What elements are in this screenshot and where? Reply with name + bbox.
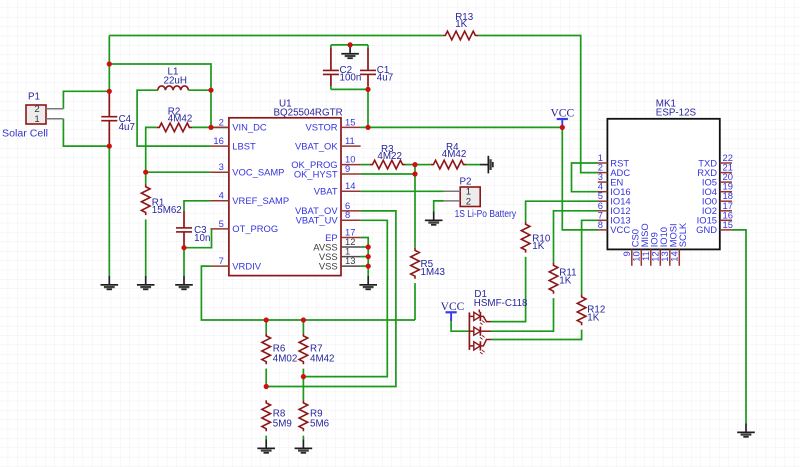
R2 value 4M42 — [168, 114, 193, 125]
P1 designator — [28, 92, 40, 103]
wire VSS13 stub — [361, 265, 369, 267]
svg-text:VBAT_UV: VBAT_UV — [296, 215, 339, 226]
power VCC (at D1) — [441, 301, 465, 321]
wire VSTOR to VCC — [361, 126, 563, 128]
svg-text:8: 8 — [598, 219, 603, 230]
wire R1 bottom to ground — [145, 219, 147, 276]
R12 label — [587, 305, 605, 316]
R13 value 1K — [455, 19, 467, 30]
svg-text:P2: P2 — [460, 176, 472, 187]
diode D1 HSMF-C118 — [469, 310, 491, 355]
R8 value 5M9 — [273, 419, 292, 430]
junction C1 bottom rail — [365, 87, 370, 92]
wire R9 links — [302, 436, 304, 440]
wire VCC2 to D1 common — [451, 319, 469, 331]
wire VSS1 stub — [361, 256, 369, 258]
resistor R8 — [262, 400, 271, 431]
R7 label — [310, 343, 323, 354]
MK1 pin 9 CS0 — [621, 229, 640, 266]
wire L1 left to LBST — [137, 90, 210, 146]
wire R10 bottom to LED1 — [491, 257, 526, 322]
junction VSTOR / C1 — [365, 125, 370, 130]
svg-text:4M42: 4M42 — [310, 353, 335, 364]
MK1 pin 13 MOSI — [659, 223, 678, 265]
wire R5 bottom — [414, 283, 416, 320]
R3 label — [381, 144, 394, 155]
wire IO12 to R11 — [554, 211, 599, 263]
svg-text:22uH: 22uH — [164, 76, 187, 87]
svg-text:BQ25504RGTR: BQ25504RGTR — [274, 108, 343, 119]
svg-text:1K: 1K — [455, 19, 467, 30]
D1 part number HSMF-C118 — [474, 298, 528, 309]
MK1 part name ESP-12S — [656, 108, 697, 119]
MK1 pin 3 EN — [598, 171, 624, 187]
svg-text:5M9: 5M9 — [273, 419, 292, 430]
svg-text:1S Li-Po Battery: 1S Li-Po Battery — [455, 209, 517, 220]
svg-text:SCLK: SCLK — [677, 222, 688, 247]
junction VSTOR / VCC — [560, 125, 565, 130]
wire R8 to ground — [265, 436, 267, 440]
MK1 pin 22 TXD — [698, 152, 733, 168]
U1 pin 17 EP — [325, 226, 361, 242]
wire VOC_SAMP — [146, 171, 211, 173]
ground below R1 — [137, 276, 155, 290]
U1 pin 2 VIN_DC — [211, 116, 267, 132]
wire C1 bottom to VSTOR — [367, 91, 369, 127]
resistor R10 — [521, 222, 530, 253]
svg-text:VREF_SAMP: VREF_SAMP — [232, 195, 289, 206]
junction L1 right — [208, 88, 213, 93]
wire R5 top to OK_HYST — [414, 165, 416, 248]
junction AVSS — [366, 244, 371, 249]
svg-text:16: 16 — [213, 135, 223, 146]
svg-text:4M02: 4M02 — [273, 353, 298, 364]
U1 pin 1 VSS — [319, 246, 361, 262]
svg-text:100n: 100n — [340, 73, 362, 84]
wire R11 bottom to LED2 — [491, 298, 554, 331]
svg-text:VBAT: VBAT — [314, 186, 338, 197]
junction VSS pin1 — [366, 254, 371, 259]
svg-text:VRDIV: VRDIV — [232, 260, 261, 271]
svg-text:1: 1 — [34, 114, 39, 125]
wire EP to VSS ground vertical — [361, 238, 369, 277]
R11 value 1K — [559, 276, 571, 287]
resistor R11 — [549, 263, 558, 294]
wire VCC to ESP VCC pin8 — [562, 127, 598, 229]
MK1 pin 17 IO2 — [702, 200, 733, 216]
svg-text:13: 13 — [345, 255, 355, 266]
U1 pin 15 VSTOR — [305, 116, 360, 132]
svg-text:2: 2 — [466, 196, 471, 207]
R10 value 1K — [532, 241, 544, 252]
capacitor C3 — [176, 211, 192, 248]
junction R3 / R4 / R5 — [412, 162, 417, 167]
wire C3 bottom junction to ground — [183, 248, 185, 276]
wire OK_HYST — [361, 173, 415, 175]
MK1 pin 2 ADC — [598, 162, 631, 178]
wire C2 top lead — [330, 45, 332, 48]
U1 pin 4 VREF_SAMP — [211, 190, 290, 206]
wire OK_PROG to R3 — [361, 164, 370, 166]
svg-text:1K: 1K — [532, 241, 544, 252]
C2 label — [340, 65, 353, 76]
wire R7 mid links — [302, 320, 304, 400]
U1 pin 6 VBAT_OV — [295, 200, 361, 216]
svg-text:OT_PROG: OT_PROG — [232, 223, 278, 234]
R5 label — [421, 259, 434, 270]
svg-text:11: 11 — [345, 135, 355, 146]
R12 value 1K — [587, 313, 599, 324]
wire VBAT_OV to R6 bottom — [266, 211, 396, 387]
op-amp U1 body (BQ25504RGTR) — [229, 118, 341, 276]
svg-text:P1: P1 — [28, 92, 40, 103]
MK1 pin 6 IO12 — [598, 200, 631, 216]
wire VBAT to P2 pin1 — [361, 190, 444, 192]
junction P1 pin1 / C4 bottom — [107, 144, 112, 149]
svg-text:2: 2 — [219, 116, 224, 127]
svg-text:VCC: VCC — [610, 224, 630, 235]
svg-text:VCC: VCC — [441, 301, 465, 313]
svg-text:5: 5 — [219, 218, 224, 229]
wire P1 pin2 loop — [63, 91, 109, 109]
MK1 pin 1 RST — [598, 152, 630, 168]
MK1 pin 14 SCLK — [669, 222, 688, 266]
MK1 pin 20 IO5 — [702, 171, 733, 187]
wire R3 right to node — [405, 164, 415, 166]
R13 label — [455, 12, 474, 23]
ground below P2 — [425, 212, 443, 226]
svg-text:VCC: VCC — [550, 107, 574, 119]
svg-text:5M6: 5M6 — [310, 419, 330, 430]
junction solar rail / y64 — [107, 61, 112, 66]
R7 value 4M42 — [310, 353, 335, 364]
svg-text:ESP-12S: ESP-12S — [656, 108, 697, 119]
MK1 pin 5 IO14 — [598, 190, 631, 206]
wire RST to IO16 — [572, 163, 599, 192]
resistor R9 — [299, 400, 308, 431]
wire P2 pin2 to ground — [434, 201, 444, 212]
svg-text:7: 7 — [219, 255, 224, 266]
svg-text:1M43: 1M43 — [421, 267, 446, 278]
R8 label — [273, 409, 286, 420]
svg-text:4: 4 — [219, 190, 224, 201]
svg-text:1K: 1K — [587, 313, 599, 324]
inductor L1 — [158, 86, 189, 90]
svg-text:8: 8 — [345, 209, 350, 220]
wire IO13 to R12 — [582, 220, 598, 294]
resistor R5 — [411, 248, 420, 279]
junction C3 bottom / OT_PROG — [181, 245, 186, 250]
R3 value 4M22 — [377, 151, 402, 162]
C1 value 4u7 — [377, 73, 393, 84]
resistor R6 — [262, 333, 271, 364]
junction VRDIV / R7 — [301, 317, 306, 322]
svg-text:4M42: 4M42 — [168, 114, 193, 125]
ground at C2/C1 top — [341, 45, 359, 59]
R2 label — [168, 107, 181, 118]
svg-text:VSS: VSS — [319, 260, 338, 271]
svg-text:1K: 1K — [559, 276, 571, 287]
svg-text:GND: GND — [696, 224, 717, 235]
wire R13 right to ADC net vertical — [478, 36, 598, 173]
svg-text:OK_HYST: OK_HYST — [294, 168, 338, 179]
R4 label — [446, 142, 459, 153]
connector P1 (Solar Cell) — [26, 104, 63, 125]
C4 label — [119, 114, 132, 125]
wire P1 pin1 loop — [63, 119, 109, 146]
R10 label — [532, 233, 551, 244]
resistor R3 — [370, 160, 405, 169]
wire node to R4 — [415, 164, 431, 166]
wire C1 bottom lead — [367, 86, 369, 91]
svg-text:Solar Cell: Solar Cell — [2, 129, 48, 140]
power VCC (main) — [550, 107, 574, 127]
ground below R8 — [257, 440, 275, 454]
wire R12 bottom to LED3 — [491, 330, 582, 340]
svg-text:3: 3 — [219, 161, 224, 172]
R6 label — [273, 343, 286, 354]
ground below C3 — [175, 276, 193, 290]
svg-text:VBAT_OK: VBAT_OK — [295, 140, 338, 151]
wire IO14 to R10 — [526, 201, 598, 221]
wire R4 right to ground — [466, 164, 480, 166]
junction VRDIV / R6 — [264, 317, 269, 322]
svg-text:VOC_SAMP: VOC_SAMP — [232, 167, 284, 178]
U1 pin 13 VSS — [319, 255, 361, 271]
MK1 pin 12 IO10 — [650, 227, 669, 266]
C3 value 10n — [194, 233, 210, 244]
svg-text:4u7: 4u7 — [119, 122, 135, 133]
wire VREF_SAMP to C3 — [184, 201, 211, 211]
P2 label 1S Li-Po Battery — [455, 209, 517, 220]
wire L1 right lead — [188, 89, 211, 91]
ground below VSS pins — [359, 276, 377, 290]
svg-text:VIN_DC: VIN_DC — [232, 122, 267, 133]
wire R2 left to VOC_SAMP node — [146, 127, 157, 172]
MK1 pin 21 RXD — [697, 162, 733, 178]
MK1 pin 10 MISO — [631, 223, 650, 265]
U1 pin 8 VBAT_UV — [296, 209, 361, 225]
R11 label — [559, 268, 576, 279]
svg-text:15M62: 15M62 — [152, 205, 182, 216]
wire VRDIV rail — [201, 266, 415, 320]
junction P1 pin2 / C4 top — [107, 89, 112, 94]
P2 designator — [460, 176, 472, 187]
ground right of R4 — [480, 156, 494, 174]
svg-text:4M42: 4M42 — [442, 149, 467, 160]
svg-text:9: 9 — [345, 163, 350, 174]
wire left vertical solar node (x=109) — [108, 36, 110, 93]
svg-text:LBST: LBST — [232, 140, 256, 151]
U1 designator — [279, 98, 292, 109]
svg-text:VSTOR: VSTOR — [305, 122, 337, 133]
R5 value 1M43 — [421, 267, 446, 278]
MK1 pin 15 GND — [696, 219, 733, 235]
R1 label — [152, 198, 165, 209]
U1 pin 7 VRDIV — [211, 255, 262, 271]
U1 pin 10 OK_PROG — [291, 154, 360, 170]
R9 value 5M6 — [310, 419, 330, 430]
R9 label — [310, 409, 323, 420]
wire node row y64 to VIN vertical — [109, 64, 211, 90]
ground below C4 — [101, 276, 119, 290]
R4 value 4M42 — [442, 149, 467, 160]
svg-text:14: 14 — [345, 180, 355, 191]
connector P2 (battery) — [444, 187, 481, 208]
capacitor C2 — [323, 48, 339, 86]
wire AVSS stub — [361, 246, 369, 248]
U1 pin 12 AVSS — [313, 236, 360, 252]
wire C1 top lead — [367, 45, 369, 48]
ground below R9 — [295, 440, 313, 454]
U1 pin 5 OT_PROG — [211, 218, 279, 234]
MK1 pin 11 IO9 — [640, 232, 659, 266]
resistor R12 — [577, 294, 586, 325]
capacitor C1 — [360, 48, 376, 86]
resistor R1 — [141, 184, 150, 215]
U1 pin 11 VBAT_OK — [295, 135, 361, 151]
capacitor C4 — [101, 92, 117, 145]
wire cap top rail — [331, 44, 368, 46]
resistor R2 — [157, 123, 192, 132]
C2 value 100n — [340, 73, 362, 84]
wire L1 right to VIN_DC pin — [210, 90, 212, 127]
C3 label — [194, 225, 207, 236]
wire R6 mid links — [265, 320, 267, 387]
wire solar top rail to R13 — [109, 35, 442, 37]
U1 pin 14 VBAT — [314, 180, 361, 196]
junction cap-rail ground tap — [348, 42, 353, 47]
svg-text:4u7: 4u7 — [377, 73, 393, 84]
svg-text:4M22: 4M22 — [377, 151, 402, 162]
junction R7 / R9 / VBAT_UV — [301, 374, 306, 379]
C4 value 4u7 — [119, 122, 135, 133]
MK1 pin 16 IO15 — [697, 209, 733, 225]
R6 value 4M02 — [273, 353, 298, 364]
junction R6 / R8 / VBAT_OV — [264, 384, 269, 389]
U1 pin 3 VOC_SAMP — [211, 161, 285, 177]
wire ESP GND to ground — [732, 230, 746, 424]
ground bottom right (ESP GND) — [737, 424, 755, 438]
svg-text:15: 15 — [345, 116, 355, 127]
MK1 pin 18 IO0 — [702, 190, 733, 206]
U1 part number BQ25504RGTR — [274, 108, 343, 119]
MK1 pin 8 VCC — [598, 219, 631, 235]
MK1 pin 7 IO13 — [598, 209, 631, 225]
U1 pin 16 LBST — [211, 135, 257, 151]
wire R2 right to VIN_DC — [192, 126, 229, 128]
D1 designator — [474, 289, 487, 300]
svg-text:15: 15 — [723, 219, 733, 230]
wire C2 bottom lead — [330, 86, 332, 89]
junction VIN_DC — [208, 125, 213, 130]
P1 label Solar Cell — [2, 129, 48, 140]
svg-text:HSMF-C118: HSMF-C118 — [474, 298, 528, 309]
wire VBAT_UV to R7 bottom — [303, 220, 387, 376]
MK1 designator — [656, 98, 676, 109]
R1 value 15M62 — [152, 205, 182, 216]
L1 value 22uH — [164, 76, 187, 87]
C1 label — [377, 65, 390, 76]
MK1 pin 4 IO16 — [598, 181, 631, 197]
wire C3 to OT_PROG — [184, 229, 212, 248]
junction VOC_SAMP / R1 / R2 — [143, 170, 148, 175]
MK1 pin 19 IO4 — [702, 181, 733, 197]
svg-text:14: 14 — [669, 251, 680, 261]
module MK1 ESP-12S body — [607, 119, 719, 250]
svg-text:10n: 10n — [194, 233, 210, 244]
resistor R7 — [299, 333, 308, 364]
junction VSS pin13 — [366, 264, 371, 269]
wire R1 top — [145, 172, 147, 184]
junction OK_HYST / R5 — [412, 171, 417, 176]
U1 pin 9 OK_HYST — [294, 163, 361, 179]
resistor R13 — [443, 31, 478, 40]
resistor R4 — [431, 160, 466, 169]
wire C4 bottom to ground — [108, 145, 110, 276]
wire cap bottom rail — [331, 88, 368, 90]
L1 label — [168, 66, 179, 77]
